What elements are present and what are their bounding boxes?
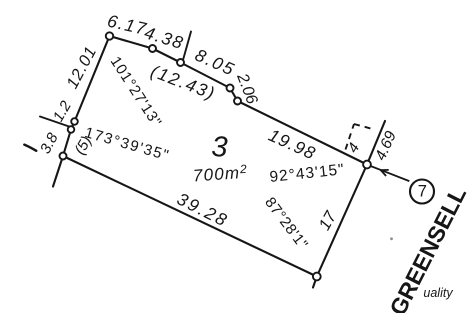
wire stub below G [313,277,317,288]
vertex H [71,118,78,125]
dashed splay box top edge [354,124,375,130]
small speck left of street name [390,237,393,240]
wire tick at I [40,117,71,128]
wire boundary C-D 8.05 [181,63,231,89]
wire boundary A-B 6.17 [110,36,153,49]
svg-text:700m2: 700m2 [192,162,248,186]
wire tick at C [183,32,191,61]
vertex E [234,98,241,105]
vertex J [60,153,67,160]
arrow from circle 7 to vertex F [371,166,410,181]
wire boundary G-J 39.28 [63,156,317,277]
vertex F [363,161,371,169]
wire extension F up 4.69 [367,121,385,165]
vertex A [106,32,113,39]
wire boundary E-F 19.98 [238,101,368,165]
left margin stroke mark [24,145,36,151]
dashed splay box left edge [346,124,355,150]
wire boundary A-H 12.01 [75,36,110,122]
vertex D [227,85,234,92]
svg-text:3: 3 [211,131,228,164]
vertex G [313,273,321,281]
wire boundary D-E 2.06 [230,88,238,101]
wire boundary I-J 3.8 [63,130,71,157]
svg-text:uality: uality [423,286,453,300]
vertex B [149,45,156,52]
vertex I [68,126,75,133]
wire boundary H-I 1.2 [71,122,75,130]
lot reference circle 7 [410,180,434,204]
wire road extension below J [53,156,63,187]
wire boundary F-G 17 [317,165,367,277]
wire boundary B-C 4.38 [153,49,181,63]
vertex C [177,59,184,66]
svg-text:7: 7 [418,183,427,201]
